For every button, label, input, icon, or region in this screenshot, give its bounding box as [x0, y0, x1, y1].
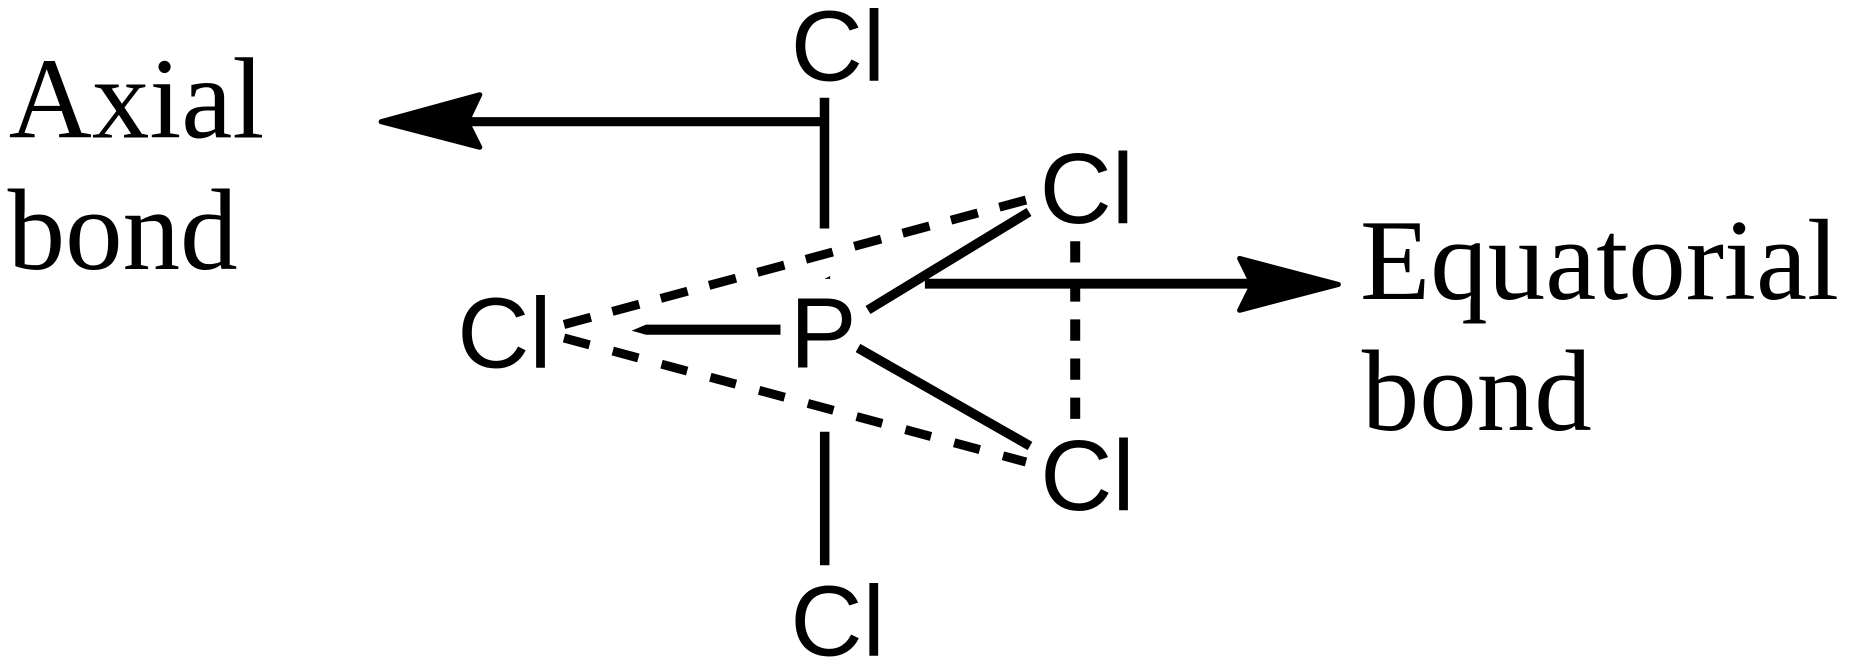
dashed edge Cl(left)-Cl(upper right) — [564, 200, 1026, 325]
svg-text:Equatorial: Equatorial — [1360, 197, 1839, 324]
dashed edge Cl(left)-Cl(lower right) — [564, 338, 1026, 462]
svg-text:Axial: Axial — [9, 35, 264, 162]
svg-text:bond: bond — [1362, 328, 1592, 455]
arrow to equatorial bond — [925, 258, 1339, 310]
bond P-Cl axial bottom (solid) — [820, 432, 830, 566]
label "Equatorial bond" — [1360, 197, 1839, 455]
bond P-Cl axial top (solid) — [820, 98, 830, 229]
dashed edge Cl(upper right)-Cl(lower right) — [1070, 241, 1080, 419]
stray dash fragment near P — [824, 276, 830, 279]
bond P-Cl equatorial upper right (solid) — [868, 212, 1029, 310]
svg-text:Cl: Cl — [457, 277, 551, 389]
svg-text:bond: bond — [8, 167, 238, 294]
bond P-Cl equatorial left (bold wedge) — [632, 325, 781, 335]
svg-text:P: P — [790, 277, 857, 389]
arrow to axial bond — [381, 95, 829, 148]
svg-text:Cl: Cl — [1040, 133, 1134, 245]
svg-text:Cl: Cl — [1040, 420, 1134, 532]
svg-text:Cl: Cl — [791, 0, 885, 102]
bond P-Cl equatorial lower right (solid) — [858, 348, 1030, 446]
label "Axial bond" — [8, 35, 265, 294]
svg-text:Cl: Cl — [790, 566, 884, 664]
